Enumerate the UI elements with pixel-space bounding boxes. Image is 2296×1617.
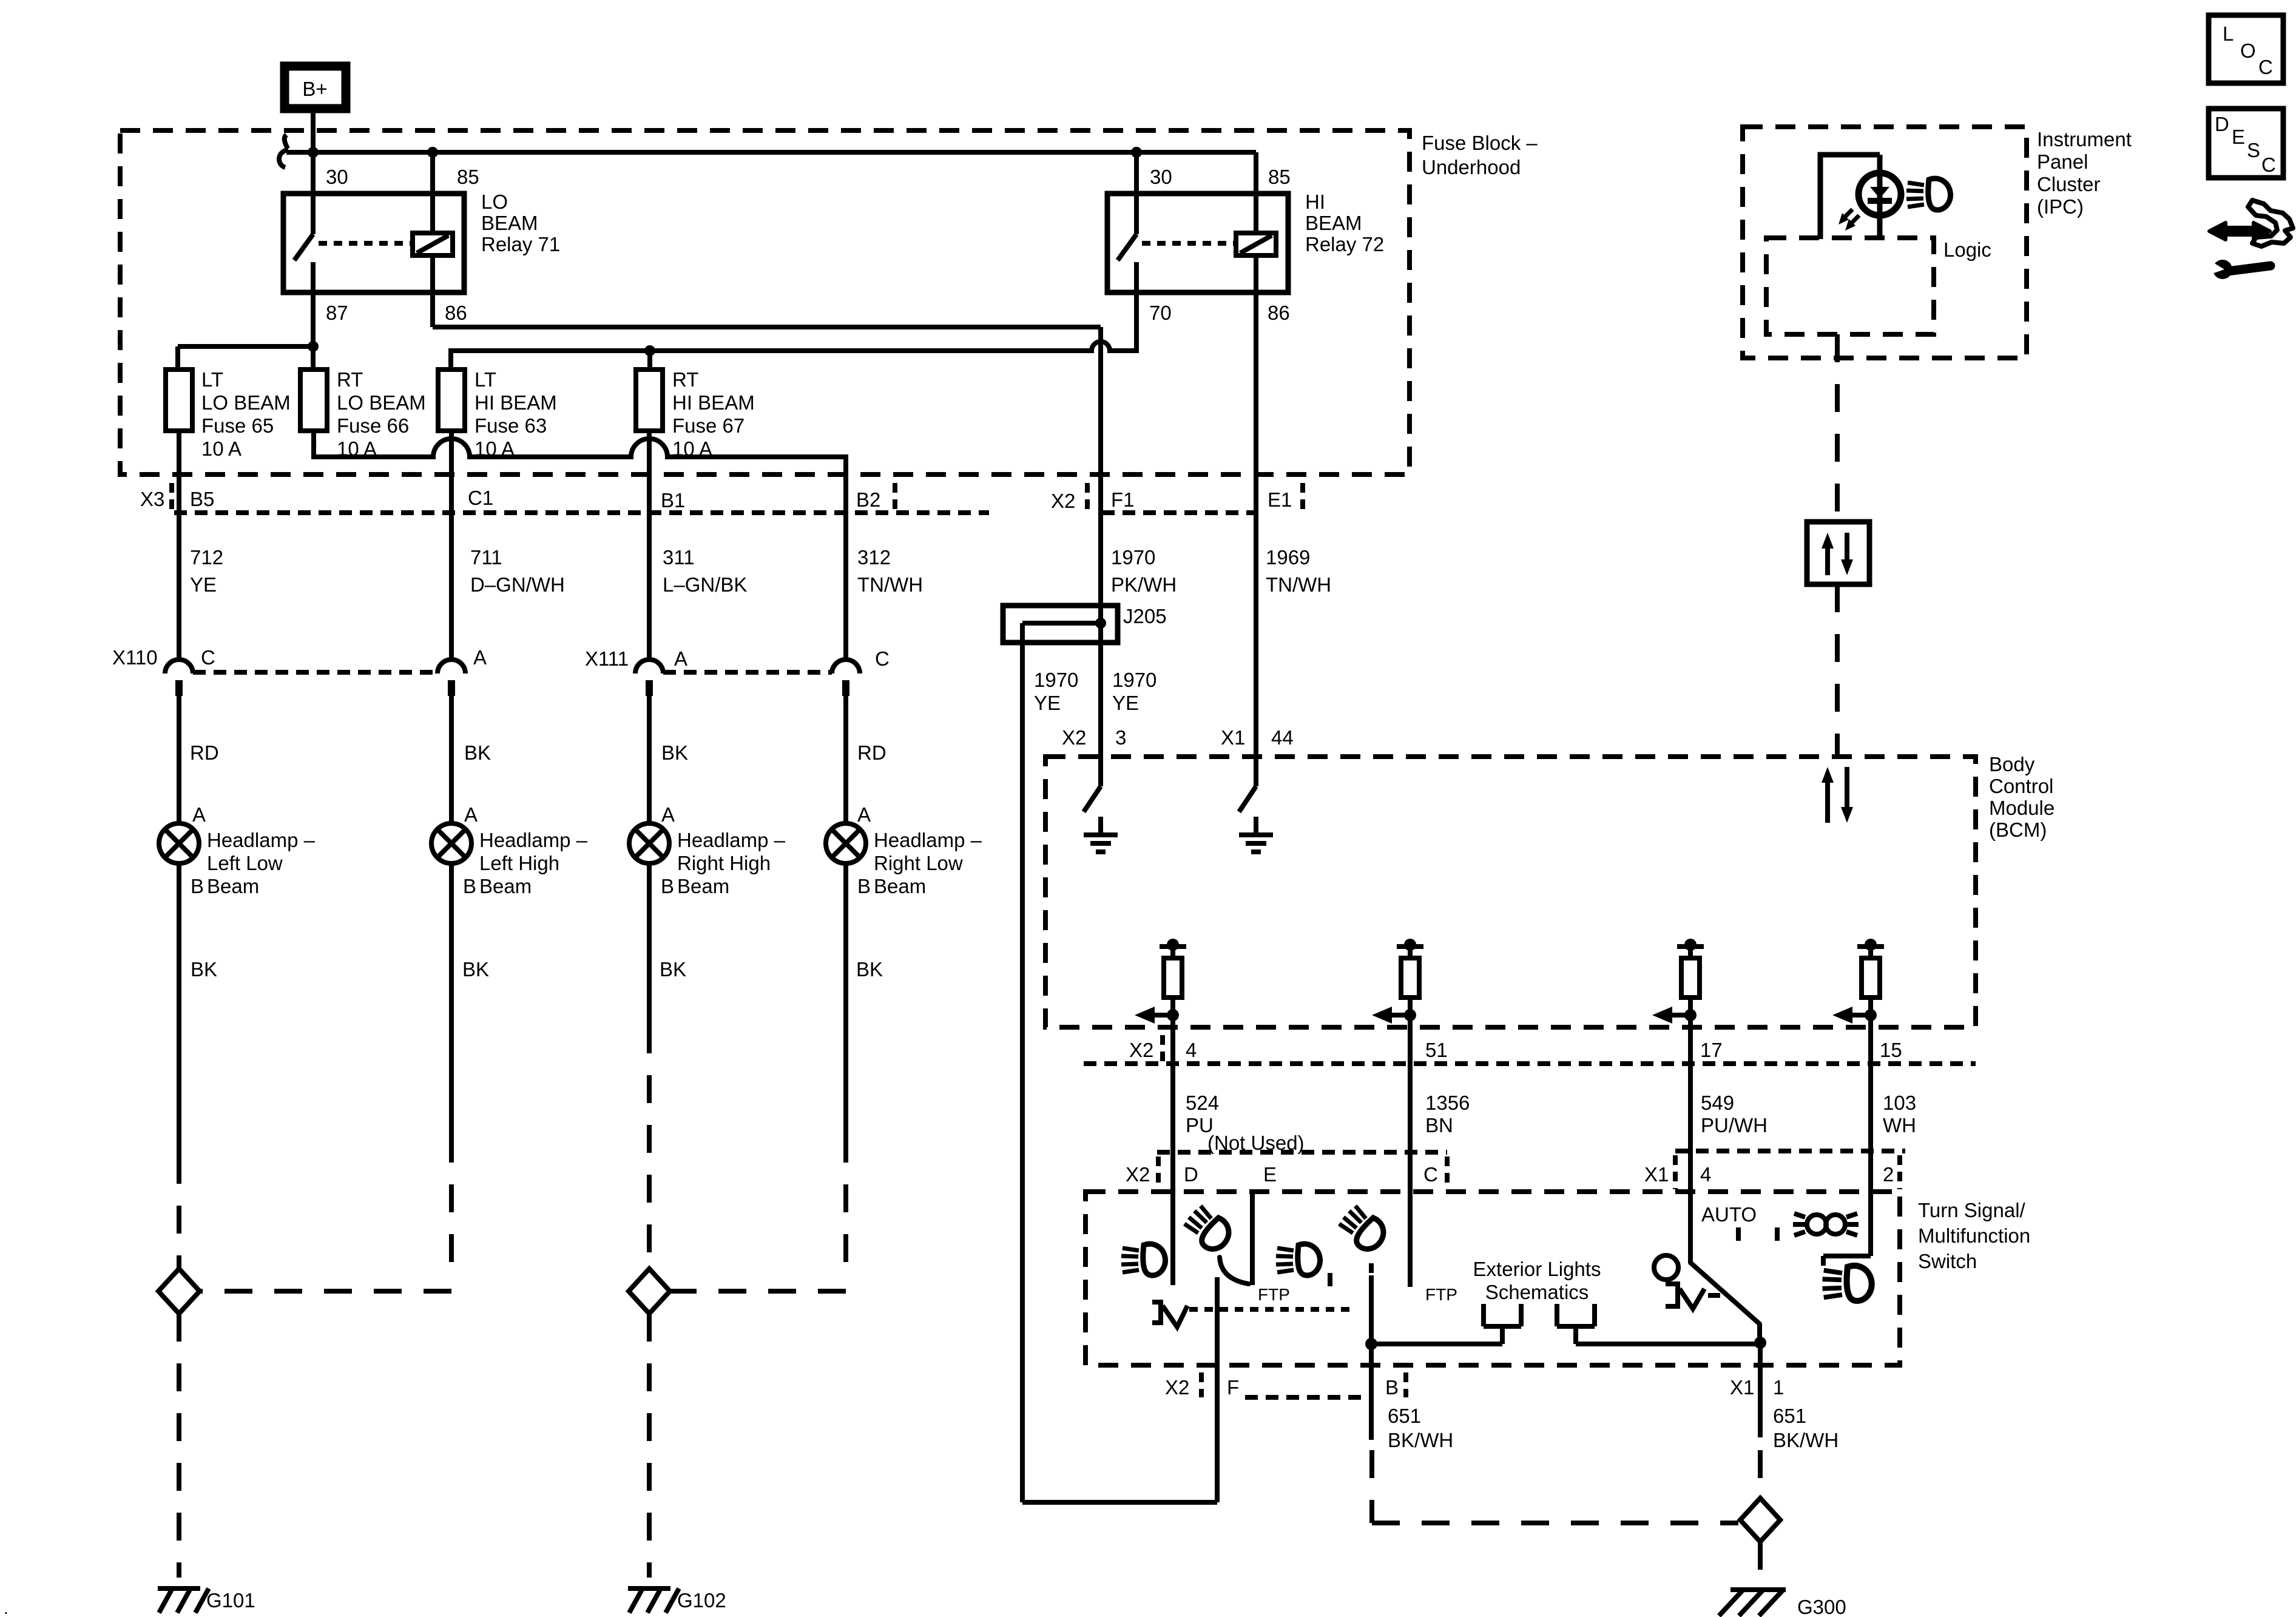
- svg-text:BEAM: BEAM: [1305, 212, 1362, 234]
- svg-text:YE: YE: [1034, 692, 1061, 714]
- svg-text:BK: BK: [856, 958, 883, 981]
- svg-text:BK: BK: [661, 741, 688, 764]
- svg-text:D: D: [1184, 1163, 1198, 1186]
- svg-text:1970: 1970: [1112, 669, 1156, 691]
- svg-text:C1: C1: [468, 487, 493, 509]
- svg-text:BEAM: BEAM: [481, 212, 538, 234]
- svg-text:Relay 72: Relay 72: [1305, 233, 1384, 255]
- svg-text:Right Low: Right Low: [874, 852, 963, 874]
- svg-text:BK/WH: BK/WH: [1388, 1429, 1453, 1451]
- svg-text:E: E: [1263, 1163, 1277, 1186]
- svg-text:LT: LT: [201, 368, 223, 391]
- svg-text:YE: YE: [190, 573, 217, 596]
- svg-text:X2: X2: [1126, 1163, 1150, 1186]
- svg-text:(BCM): (BCM): [1989, 819, 2047, 841]
- svg-text:3: 3: [1115, 726, 1126, 749]
- svg-text:85: 85: [1268, 166, 1291, 188]
- svg-text:4: 4: [1700, 1163, 1711, 1186]
- svg-text:HI BEAM: HI BEAM: [474, 391, 557, 414]
- svg-text:712: 712: [190, 546, 223, 569]
- svg-text:70: 70: [1149, 302, 1172, 324]
- svg-text:C: C: [2258, 56, 2273, 78]
- svg-text:E: E: [2232, 126, 2245, 148]
- svg-text:Beam: Beam: [207, 875, 259, 897]
- svg-text:30: 30: [1150, 166, 1172, 188]
- svg-text:RT: RT: [672, 368, 698, 391]
- svg-text:651: 651: [1388, 1405, 1421, 1427]
- svg-text:B5: B5: [190, 488, 214, 510]
- svg-text:B: B: [1385, 1376, 1399, 1399]
- svg-text:86: 86: [445, 302, 467, 324]
- svg-text:B2: B2: [856, 488, 880, 511]
- svg-text:Multifunction: Multifunction: [1918, 1224, 2030, 1247]
- svg-text:1969: 1969: [1266, 546, 1310, 569]
- svg-text:BK: BK: [191, 958, 217, 981]
- svg-text:549: 549: [1701, 1092, 1734, 1114]
- svg-text:L–GN/BK: L–GN/BK: [663, 573, 747, 596]
- svg-text:51: 51: [1425, 1039, 1448, 1061]
- svg-text:X1: X1: [1644, 1163, 1669, 1186]
- svg-text:LO BEAM: LO BEAM: [201, 391, 291, 414]
- svg-text:17: 17: [1700, 1039, 1723, 1061]
- svg-text:E1: E1: [1268, 488, 1292, 511]
- svg-text:Turn Signal/: Turn Signal/: [1918, 1199, 2026, 1221]
- svg-text:Underhood: Underhood: [1422, 156, 1521, 178]
- svg-text:J205: J205: [1123, 605, 1167, 627]
- svg-text:Left Low: Left Low: [207, 852, 283, 874]
- svg-text:.: .: [4, 1599, 8, 1617]
- svg-text:Headlamp –: Headlamp –: [874, 829, 982, 851]
- svg-text:A: A: [464, 803, 478, 826]
- svg-text:HI BEAM: HI BEAM: [672, 391, 755, 414]
- svg-text:Beam: Beam: [479, 875, 532, 897]
- svg-text:Relay 71: Relay 71: [481, 233, 560, 255]
- svg-text:44: 44: [1271, 726, 1294, 749]
- svg-text:F: F: [1227, 1376, 1239, 1399]
- svg-text:311: 311: [663, 546, 695, 569]
- svg-text:Left High: Left High: [479, 852, 559, 874]
- svg-text:312: 312: [857, 546, 891, 569]
- svg-text:103: 103: [1883, 1092, 1916, 1114]
- svg-text:Instrument: Instrument: [2037, 128, 2132, 150]
- svg-text:85: 85: [457, 166, 479, 188]
- svg-text:1970: 1970: [1034, 669, 1078, 691]
- svg-text:L: L: [2223, 22, 2234, 45]
- svg-text:RT: RT: [337, 368, 363, 391]
- svg-text:BK/WH: BK/WH: [1773, 1429, 1838, 1451]
- svg-text:711: 711: [470, 546, 502, 569]
- svg-text:LO: LO: [481, 191, 508, 213]
- svg-text:F1: F1: [1111, 488, 1135, 511]
- svg-text:524: 524: [1186, 1092, 1219, 1114]
- svg-text:D–GN/WH: D–GN/WH: [470, 573, 565, 596]
- svg-text:Schematics: Schematics: [1485, 1281, 1589, 1303]
- svg-text:Beam: Beam: [677, 875, 729, 897]
- svg-text:TN/WH: TN/WH: [1266, 573, 1331, 596]
- svg-text:Exterior Lights: Exterior Lights: [1473, 1258, 1601, 1280]
- svg-text:Beam: Beam: [874, 875, 926, 897]
- svg-text:1970: 1970: [1111, 546, 1155, 569]
- svg-text:30: 30: [326, 166, 348, 188]
- svg-text:86: 86: [1268, 302, 1290, 324]
- svg-text:X111: X111: [585, 647, 629, 670]
- svg-text:TN/WH: TN/WH: [857, 573, 923, 596]
- svg-text:Fuse Block –: Fuse Block –: [1422, 132, 1538, 154]
- svg-text:B: B: [191, 875, 204, 897]
- svg-text:X3: X3: [140, 488, 164, 510]
- svg-text:Control: Control: [1989, 775, 2053, 797]
- svg-text:BK: BK: [660, 958, 686, 981]
- svg-text:Logic: Logic: [1943, 238, 1991, 261]
- svg-text:Fuse 63: Fuse 63: [474, 414, 547, 437]
- svg-text:FTP: FTP: [1425, 1285, 1457, 1304]
- svg-text:Module: Module: [1989, 797, 2055, 819]
- svg-text:651: 651: [1773, 1405, 1806, 1427]
- svg-text:LO BEAM: LO BEAM: [337, 391, 426, 414]
- svg-text:FTP: FTP: [1258, 1285, 1290, 1304]
- svg-text:Fuse 65: Fuse 65: [201, 414, 274, 437]
- svg-text:BN: BN: [1425, 1114, 1453, 1136]
- svg-text:G300: G300: [1797, 1596, 1846, 1617]
- svg-text:BK: BK: [464, 741, 491, 764]
- svg-text:Headlamp –: Headlamp –: [207, 829, 316, 851]
- svg-text:PK/WH: PK/WH: [1111, 573, 1177, 596]
- svg-text:BK: BK: [462, 958, 489, 981]
- svg-text:Fuse 67: Fuse 67: [672, 414, 745, 437]
- svg-text:B: B: [463, 875, 476, 897]
- svg-text:B: B: [661, 875, 674, 897]
- svg-text:X2: X2: [1051, 490, 1075, 512]
- svg-text:C: C: [2261, 154, 2276, 176]
- svg-text:O: O: [2240, 39, 2256, 62]
- svg-text:C: C: [875, 647, 890, 670]
- svg-text:A: A: [674, 647, 687, 670]
- svg-text:Cluster: Cluster: [2037, 173, 2101, 195]
- svg-text:G102: G102: [677, 1589, 726, 1612]
- svg-text:Fuse 66: Fuse 66: [337, 414, 409, 437]
- svg-text:Panel: Panel: [2037, 150, 2088, 173]
- svg-text:PU/WH: PU/WH: [1701, 1114, 1768, 1136]
- svg-text:WH: WH: [1883, 1114, 1916, 1136]
- svg-text:Body: Body: [1989, 753, 2035, 775]
- svg-text:A: A: [473, 646, 487, 669]
- svg-text:B+: B+: [302, 78, 327, 100]
- svg-text:X110: X110: [112, 646, 158, 669]
- svg-text:HI: HI: [1305, 191, 1325, 213]
- svg-text:C: C: [1423, 1163, 1438, 1186]
- svg-text:YE: YE: [1112, 692, 1139, 714]
- svg-text:Right High: Right High: [677, 852, 771, 874]
- svg-text:RD: RD: [857, 741, 886, 764]
- svg-text:X2: X2: [1062, 726, 1086, 749]
- svg-text:Switch: Switch: [1918, 1250, 1977, 1272]
- svg-text:2: 2: [1883, 1163, 1894, 1186]
- svg-text:1: 1: [1773, 1376, 1784, 1399]
- svg-text:B1: B1: [661, 489, 685, 511]
- svg-text:A: A: [661, 803, 675, 826]
- svg-text:(IPC): (IPC): [2037, 195, 2084, 218]
- svg-text:4: 4: [1186, 1039, 1197, 1061]
- svg-text:Headlamp –: Headlamp –: [677, 829, 786, 851]
- svg-text:87: 87: [326, 302, 348, 324]
- svg-text:15: 15: [1880, 1039, 1902, 1061]
- svg-text:G101: G101: [206, 1589, 255, 1612]
- svg-text:X2: X2: [1165, 1376, 1189, 1399]
- svg-text:10 A: 10 A: [201, 437, 241, 460]
- svg-text:A: A: [857, 803, 871, 826]
- svg-text:B: B: [857, 875, 871, 897]
- svg-text:A: A: [192, 803, 206, 826]
- svg-text:AUTO: AUTO: [1701, 1203, 1757, 1226]
- svg-text:X2: X2: [1129, 1039, 1153, 1061]
- svg-text:Headlamp –: Headlamp –: [479, 829, 588, 851]
- svg-text:D: D: [2215, 113, 2229, 135]
- svg-text:S: S: [2247, 139, 2260, 161]
- svg-text:1356: 1356: [1425, 1092, 1470, 1114]
- svg-text:X1: X1: [1221, 726, 1245, 749]
- svg-text:RD: RD: [190, 741, 219, 764]
- svg-text:LT: LT: [474, 368, 496, 391]
- svg-text:C: C: [201, 646, 215, 669]
- svg-text:X1: X1: [1730, 1376, 1754, 1399]
